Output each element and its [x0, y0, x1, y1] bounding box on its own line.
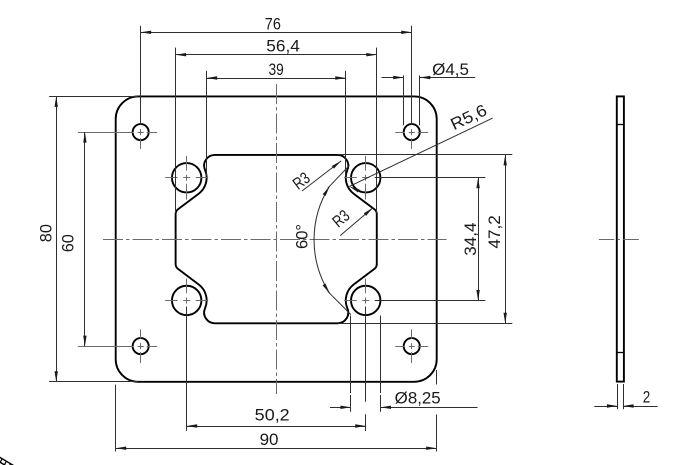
dimension 34,4: [478, 178, 480, 301]
dimension 76: [141, 32, 412, 34]
centerline cross corner hole BR: [395, 346, 404, 348]
dimension 39: [207, 78, 346, 80]
inner cutout 56.4x47.2 with reliefs R5.6 and chamfers: [176, 155, 377, 323]
side view centerline: [599, 239, 642, 241]
dimension 90: [116, 448, 437, 450]
leader R5,6: [349, 118, 492, 186]
svg-text:56,4: 56,4: [266, 37, 300, 56]
plate horizontal centerline: [103, 239, 447, 241]
big hole D8.25 #4: [351, 286, 380, 315]
side view corner tangent line bottom: [617, 352, 624, 354]
svg-text:47,2: 47,2: [485, 215, 504, 248]
centerline cross corner hole BL: [78, 346, 134, 348]
centerline cross corner hole TL: [78, 132, 134, 134]
leader R3 upper: [302, 161, 341, 191]
plate outline (front view, 90x80 rounded corners): [116, 96, 437, 381]
callout D4,5: [382, 77, 404, 79]
dimension 50,2: [187, 426, 366, 428]
callout D8,25: [330, 407, 351, 409]
dimension 56,4: [176, 54, 377, 56]
svg-text:34,4: 34,4: [461, 223, 480, 256]
corner hole D4.5 #1: [133, 124, 149, 140]
centerline cross big hole BL (vert merged with 50,2 ext): [165, 300, 178, 302]
svg-text:2: 2: [643, 388, 651, 407]
frame corner mark bottom-left: [0, 457, 14, 465]
svg-text:90: 90: [260, 430, 279, 449]
big hole D8.25 #2: [351, 163, 380, 192]
big hole D8.25 #3: [172, 286, 201, 315]
side view plate outline (thickness 2): [617, 96, 624, 381]
angle dimension 60deg: [314, 186, 330, 293]
svg-text:39: 39: [269, 60, 284, 79]
centerline cross big hole TL: [165, 177, 178, 179]
centerline cross big hole BR (vert merged w 50,2 ext, horiz merged w 34,4 ext): [344, 300, 357, 302]
centerline cross big hole TR (horiz merged with 34,4 ext): [344, 177, 357, 179]
svg-text:Ø4,5: Ø4,5: [432, 60, 469, 79]
svg-text:Ø8,25: Ø8,25: [395, 388, 441, 407]
corner hole D4.5 #4: [404, 338, 420, 354]
dimension 47,2: [505, 155, 507, 323]
side view corner tangent line top: [617, 124, 624, 126]
dimension 60: [84, 132, 86, 346]
svg-text:60°: 60°: [293, 224, 312, 249]
leader R3 lower: [340, 208, 373, 236]
svg-text:50,2: 50,2: [255, 406, 290, 425]
svg-text:80: 80: [37, 224, 56, 242]
corner hole D4.5 #3: [133, 338, 149, 354]
plate vertical centerline: [276, 84, 278, 394]
corner hole D4.5 #2: [404, 124, 420, 140]
centerline cross corner hole TR: [395, 132, 404, 134]
svg-text:76: 76: [265, 14, 281, 33]
dimension 80: [56, 96, 58, 381]
big hole D8.25 #1: [172, 163, 201, 192]
svg-text:60: 60: [59, 234, 78, 252]
dimension 2: [594, 406, 617, 408]
